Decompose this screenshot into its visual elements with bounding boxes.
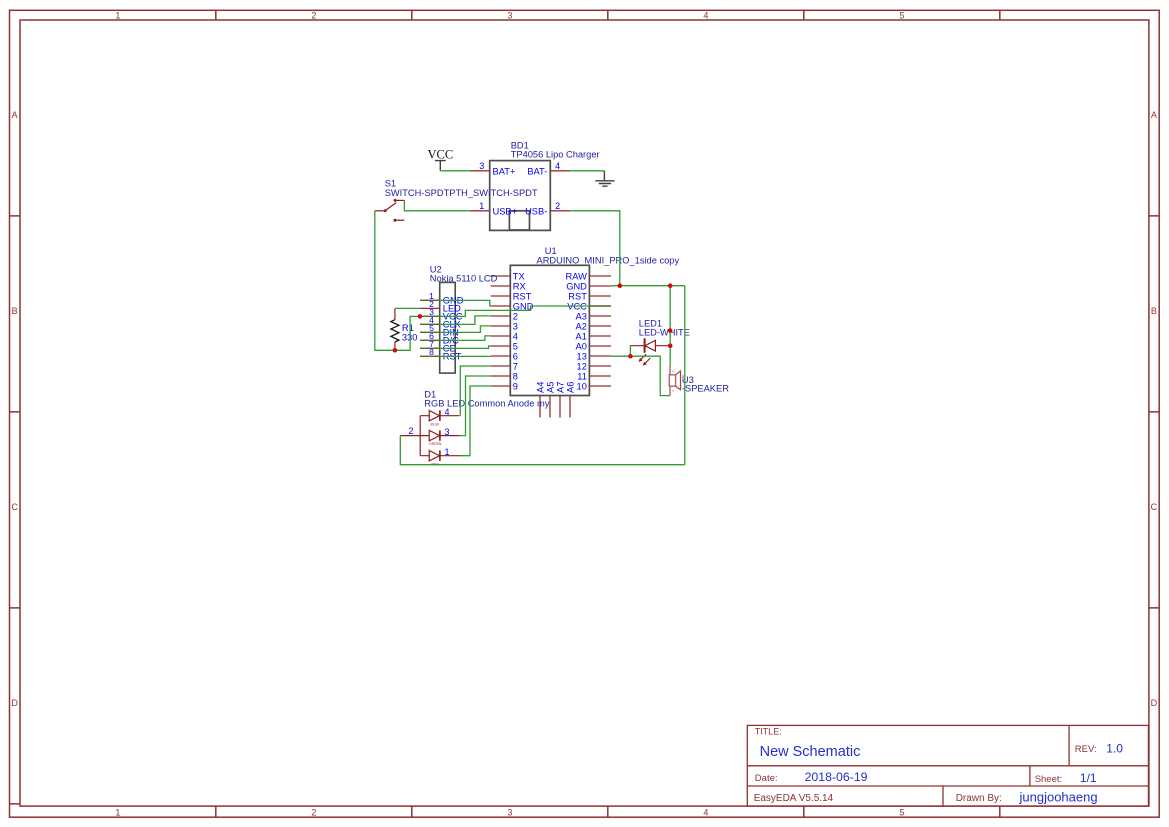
svg-text:1: 1 <box>115 11 120 21</box>
power flag VCC <box>428 147 454 171</box>
junction LED1 anode <box>668 343 673 348</box>
svg-text:USB-: USB- <box>525 207 547 217</box>
svg-text:1/1: 1/1 <box>1080 771 1097 785</box>
svg-text:A2: A2 <box>576 321 587 331</box>
pin 1 USB+ <box>470 210 490 212</box>
svg-text:EasyEDA V5.5.14: EasyEDA V5.5.14 <box>754 793 834 804</box>
svg-text:2018-06-19: 2018-06-19 <box>805 770 868 784</box>
svg-text:GREEN: GREEN <box>429 442 442 446</box>
svg-text:4: 4 <box>555 161 560 171</box>
svg-text:jungjoohaeng: jungjoohaeng <box>1019 790 1098 805</box>
svg-text:1.0: 1.0 <box>1106 742 1123 756</box>
svg-text:2: 2 <box>311 11 316 21</box>
svg-text:TX: TX <box>513 271 525 281</box>
svg-text:2: 2 <box>555 201 560 211</box>
svg-text:BAT-: BAT- <box>527 167 547 177</box>
svg-text:A1: A1 <box>576 331 587 341</box>
svg-text:5: 5 <box>899 11 904 21</box>
wire R1 top to U2 LED <box>395 307 420 309</box>
svg-text:2: 2 <box>311 807 316 817</box>
speaker U3 <box>669 366 729 396</box>
bottom pins A4 A5 A7 A6 <box>540 396 570 418</box>
wire pin13 to speaker <box>611 356 670 395</box>
pin 4 BAT- <box>550 170 570 172</box>
wire GND rail <box>611 285 685 287</box>
wire U2 D/C to U1 pin4 <box>420 336 491 341</box>
resistor R1 330 <box>391 309 418 351</box>
wire bottom to D1 anode <box>400 436 685 465</box>
svg-text:TP4056 Lipo Charger: TP4056 Lipo Charger <box>511 149 600 159</box>
svg-text:4: 4 <box>513 331 518 341</box>
title block <box>747 725 1148 806</box>
led LED1 white <box>630 318 690 366</box>
wire U1 pin9 to D1.1 <box>460 386 491 456</box>
junction pin13 net <box>628 354 633 359</box>
wire U2 CE to U1 pin5 <box>420 346 491 349</box>
junction GND rail right <box>668 283 673 288</box>
svg-text:SWITCH-SPDTPTH_SWITCH-SPDT: SWITCH-SPDTPTH_SWITCH-SPDT <box>385 188 538 198</box>
svg-text:A: A <box>12 110 18 120</box>
svg-text:+: + <box>672 369 675 374</box>
junction LED net upper <box>668 328 673 333</box>
olive overlaps wire-over-stub <box>420 300 611 356</box>
wire U2 RST to U1 pin6 <box>420 355 491 357</box>
junction at U2 VCC pin <box>418 314 423 319</box>
svg-text:RX: RX <box>513 281 526 291</box>
svg-text:R1: R1 <box>402 323 414 333</box>
svg-text:3: 3 <box>513 321 518 331</box>
svg-text:C: C <box>1151 502 1158 512</box>
svg-text:B: B <box>12 306 18 316</box>
svg-text:1: 1 <box>479 201 484 211</box>
charger BD1 <box>470 140 600 230</box>
right pins RAW..10 <box>589 276 611 386</box>
svg-text:REV:: REV: <box>1075 744 1097 755</box>
svg-text:2: 2 <box>513 311 518 321</box>
svg-text:RST: RST <box>513 291 532 301</box>
svg-text:3: 3 <box>479 161 484 171</box>
svg-text:USB+: USB+ <box>493 207 518 217</box>
wire U2 DIN to U1 pin3 <box>420 326 491 333</box>
svg-text:4: 4 <box>445 407 450 417</box>
svg-text:Drawn By:: Drawn By: <box>956 793 1002 804</box>
svg-text:RAW: RAW <box>566 271 588 281</box>
svg-text:A6: A6 <box>565 382 575 393</box>
svg-text:A7: A7 <box>555 382 565 393</box>
svg-text:Date:: Date: <box>755 773 778 784</box>
wire U1 pin7 to D1.4 <box>460 366 490 416</box>
svg-text:6: 6 <box>513 351 518 361</box>
wire S1 common / R1 / U2 VCC net <box>375 211 611 350</box>
svg-text:B: B <box>1151 306 1157 316</box>
wire U2 GND to U1 GND <box>420 300 491 306</box>
svg-text:RGB LED Common Anode my: RGB LED Common Anode my <box>424 399 549 409</box>
svg-text:BAT+: BAT+ <box>493 167 516 177</box>
svg-text:A3: A3 <box>576 311 587 321</box>
svg-text:D: D <box>1151 698 1158 708</box>
svg-text:8: 8 <box>513 371 518 381</box>
svg-text:+: + <box>672 389 675 394</box>
svg-text:A0: A0 <box>576 341 587 351</box>
wire LED/speaker vertical <box>669 286 671 366</box>
svg-text:-SPEAKER: -SPEAKER <box>682 383 729 393</box>
wire VCC to BAT+ <box>440 170 470 172</box>
svg-text:TITLE:: TITLE: <box>755 727 782 737</box>
svg-text:BLUE: BLUE <box>431 422 441 426</box>
svg-text:5: 5 <box>513 341 518 351</box>
svg-text:3: 3 <box>507 807 512 817</box>
pin 2 USB- <box>550 210 570 212</box>
svg-text:VCC: VCC <box>428 147 454 161</box>
junction at R1 bottom <box>393 348 398 353</box>
svg-text:4: 4 <box>703 807 708 817</box>
rgb led D1 <box>400 389 549 466</box>
svg-text:12: 12 <box>577 361 587 371</box>
svg-text:A: A <box>1151 110 1157 120</box>
svg-text:13: 13 <box>577 351 587 361</box>
wire S1 throw to USB+ <box>404 200 470 210</box>
wires <box>375 171 685 465</box>
svg-text:9: 9 <box>513 381 518 391</box>
svg-text:2: 2 <box>409 426 414 436</box>
svg-text:1: 1 <box>445 447 450 457</box>
wire rail right vertical <box>684 286 686 465</box>
switch S1 <box>375 179 538 222</box>
svg-text:ARDUINO_MINI_PRO_1side copy: ARDUINO_MINI_PRO_1side copy <box>537 256 680 266</box>
svg-text:5: 5 <box>899 807 904 817</box>
svg-text:11: 11 <box>577 371 587 381</box>
lcd U2 Nokia 5110 <box>420 264 498 373</box>
wire LED cathode drop <box>629 346 631 357</box>
svg-text:Sheet:: Sheet: <box>1035 774 1062 785</box>
svg-text:3: 3 <box>445 427 450 437</box>
wire USB- down to GND rail <box>570 211 620 286</box>
pin 3 BAT+ <box>470 170 490 172</box>
svg-text:RST: RST <box>568 291 587 301</box>
svg-text:A4: A4 <box>535 382 545 393</box>
left pins TX..9 <box>491 276 511 386</box>
svg-text:GND: GND <box>566 281 587 291</box>
junction GND rail left <box>618 283 623 288</box>
svg-text:3: 3 <box>507 11 512 21</box>
svg-text:4: 4 <box>703 11 708 21</box>
svg-text:10: 10 <box>577 381 587 391</box>
mcu U1 ARDUINO_MINI_PRO <box>491 246 680 417</box>
wire U1 pin8 to D1.3 <box>460 376 491 436</box>
svg-text:D: D <box>11 698 18 708</box>
svg-text:LED-WHITE: LED-WHITE <box>639 328 690 338</box>
svg-text:New Schematic: New Schematic <box>760 744 861 760</box>
svg-text:A5: A5 <box>545 382 555 393</box>
svg-text:C: C <box>11 502 18 512</box>
wire BAT- to ground <box>570 170 604 172</box>
ground <box>595 171 614 186</box>
wire U2 CLK to U1 pin2 <box>420 316 491 325</box>
svg-text:1: 1 <box>115 807 120 817</box>
svg-text:7: 7 <box>513 361 518 371</box>
